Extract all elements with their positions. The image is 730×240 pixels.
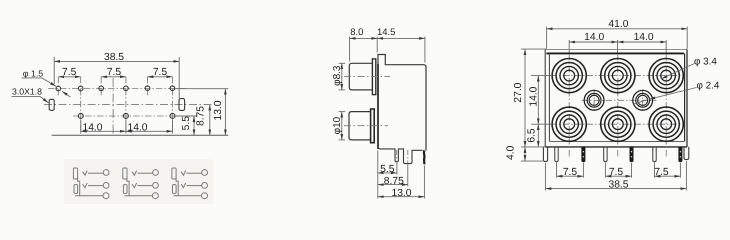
- centerline column 3: [665, 54, 667, 158]
- RCA connector bottom-left: [552, 107, 586, 141]
- label phi3.4 with leader: [662, 57, 718, 79]
- dimension 13.0 vertical: [175, 89, 228, 136]
- hole top row 6: [170, 86, 175, 91]
- front body outer rect: [545, 49, 687, 146]
- svg-text:13.0: 13.0: [213, 100, 224, 120]
- label phi1.5 with leader: [22, 68, 71, 97]
- centerline middle pads: [44, 104, 213, 106]
- svg-text:8.0: 8.0: [350, 27, 363, 38]
- board edge reference line bottom: [52, 134, 229, 136]
- dimension 14.0 left vertical: [531, 76, 552, 125]
- dimension 5.5 bottom middle: [378, 151, 397, 199]
- dimension 6.5 left vertical: [537, 124, 539, 147]
- hole top row 5: [145, 86, 150, 91]
- svg-text:7.5: 7.5: [153, 67, 168, 78]
- dimension 14.0 left span: [81, 120, 173, 134]
- dimension 8.75 vertical: [209, 105, 211, 136]
- dimension phi10: [339, 112, 346, 140]
- svg-text:38.5: 38.5: [608, 180, 628, 191]
- dimension 13.0 bottom middle: [378, 166, 425, 199]
- svg-text:φ10: φ10: [332, 116, 343, 134]
- dimension 7.5 (third pair): [148, 76, 173, 78]
- RCA connector top-middle: [601, 59, 635, 93]
- RCA connector bottom-middle: [601, 107, 635, 141]
- peg axis centerline: [407, 150, 409, 163]
- svg-text:7.5: 7.5: [563, 167, 578, 178]
- svg-text:3.0X1.8: 3.0X1.8: [12, 86, 42, 96]
- svg-text:8.75: 8.75: [196, 106, 207, 126]
- pin outline 1: [555, 147, 558, 162]
- svg-text:38.5: 38.5: [104, 52, 124, 63]
- dimension 38.5 bottom: [545, 161, 686, 191]
- pin outline 2: [604, 147, 607, 162]
- front body inner rect: [546, 53, 684, 141]
- svg-text:14.0: 14.0: [82, 123, 102, 134]
- pin dark 2: [630, 147, 634, 162]
- body side outline: [378, 55, 426, 151]
- svg-text:φ 3.4: φ 3.4: [694, 57, 717, 68]
- dimension phi8.3: [339, 63, 346, 90]
- svg-text:41.0: 41.0: [608, 19, 628, 30]
- jack schematic symbol 3: [172, 168, 208, 199]
- dimension 27.0 left: [521, 49, 546, 147]
- pin1 axis centerline: [396, 150, 398, 161]
- dimension 7.5 bottom third: [655, 163, 681, 178]
- pin dark 3: [678, 147, 682, 162]
- hole bottom row 1: [78, 113, 83, 118]
- centerline small hole 2 vertical: [642, 90, 644, 112]
- dimension 7.5 (first pair): [58, 76, 80, 78]
- back pin bent: [423, 150, 426, 164]
- bottom jack flange: [371, 109, 375, 143]
- svg-text:φ8.3: φ8.3: [332, 65, 343, 86]
- centerline bottom jack: [344, 125, 388, 127]
- RCA connector top-left: [552, 59, 586, 93]
- svg-text:7.5: 7.5: [609, 167, 624, 178]
- hole top row 3: [99, 86, 104, 91]
- top jack flange: [372, 59, 375, 95]
- small hole 2: [633, 90, 653, 110]
- centerline small holes row: [582, 99, 657, 101]
- pin dark 1: [581, 147, 585, 162]
- centerline column 1: [568, 54, 570, 158]
- svg-text:14.0: 14.0: [127, 123, 147, 134]
- svg-text:8.75: 8.75: [384, 176, 404, 187]
- dimension 8.75 bottom middle: [378, 165, 408, 187]
- svg-text:14.5: 14.5: [377, 27, 396, 38]
- centerline columns short (holes 1,3,5): [58, 77, 147, 97]
- svg-text:7.5: 7.5: [107, 67, 122, 78]
- bottom jack cylinder: [349, 112, 370, 140]
- label 3.0X1.8 with leader: [12, 86, 49, 102]
- body bottom edge with pin and peg: [378, 147, 426, 164]
- mounting tab left: [543, 147, 547, 162]
- jack schematic symbol 2: [123, 168, 159, 199]
- svg-text:5.5: 5.5: [380, 164, 395, 175]
- svg-text:4.0: 4.0: [506, 145, 517, 160]
- svg-text:14.0: 14.0: [584, 32, 604, 43]
- centerline top row: [551, 75, 684, 77]
- svg-text:13.0: 13.0: [391, 188, 411, 199]
- pad left 3.0x1.8: [49, 99, 54, 110]
- dimension 4.0 left: [521, 147, 544, 161]
- hole bottom row 2: [123, 113, 128, 118]
- mounting tab right: [684, 147, 689, 160]
- svg-text:27.0: 27.0: [513, 82, 524, 102]
- hole bottom row 3: [170, 113, 175, 118]
- top jack cylinder: [349, 63, 372, 90]
- svg-text:7.5: 7.5: [654, 167, 669, 178]
- RCA connector bottom-right: [649, 107, 683, 141]
- centerline small hole 1 vertical: [593, 90, 595, 112]
- pad right 3.0x1.8: [179, 99, 185, 111]
- jack schematic symbol 1: [73, 168, 109, 199]
- dimension 5.5 vertical: [175, 116, 197, 135]
- dimension 38.5 top: [54, 57, 179, 98]
- centerline column 2: [617, 54, 619, 158]
- svg-text:5.5: 5.5: [181, 116, 192, 131]
- small hole 1: [584, 90, 604, 110]
- dimension 8.0 / 14.5 top: [350, 37, 425, 63]
- centerline top jack: [344, 76, 390, 78]
- dimension 7.5 bottom first: [557, 163, 584, 178]
- svg-text:14.0: 14.0: [529, 86, 540, 106]
- dimension 7.5 (second pair): [101, 76, 126, 78]
- centerline central axis: [112, 78, 114, 135]
- dimension 41.0 top: [547, 27, 688, 49]
- svg-text:φ 2.4: φ 2.4: [697, 81, 720, 92]
- svg-text:6.5: 6.5: [527, 128, 538, 143]
- dimension 7.5 bottom second: [605, 163, 631, 178]
- pin outline 3: [653, 147, 656, 162]
- svg-text:14.0: 14.0: [634, 32, 654, 43]
- hole top row 4: [124, 86, 129, 91]
- RCA connector top-right: [649, 59, 683, 93]
- centerline bottom hole row: [73, 115, 186, 117]
- centerline top hole row: [48, 88, 186, 90]
- hole top row 1: [56, 86, 61, 91]
- hole top row 2: [78, 86, 83, 91]
- scan shading behind schematic symbols: [64, 159, 214, 204]
- centerline bottom row: [551, 123, 684, 125]
- label phi2.4 with leader: [633, 81, 720, 105]
- svg-text:φ 1.5: φ 1.5: [23, 68, 43, 78]
- centerline columns long (holes 2,4,6): [81, 77, 173, 133]
- dimension 14.0 top pair: [569, 40, 666, 53]
- svg-text:7.5: 7.5: [62, 67, 77, 78]
- body front face edge: [377, 64, 379, 149]
